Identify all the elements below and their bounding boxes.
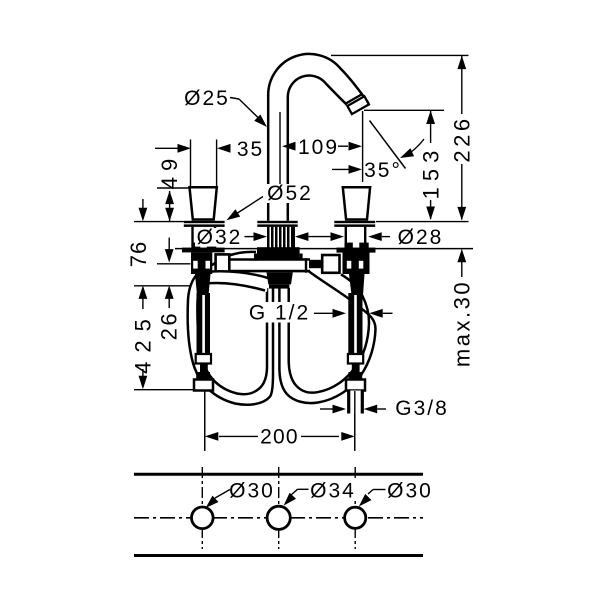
label plan diameter 30 right (386, 481, 434, 500)
hose horizontal crossover (216, 261, 310, 270)
dimension 35 degrees (332, 168, 349, 170)
svg-text:35°: 35° (364, 159, 402, 182)
svg-text:Ø30: Ø30 (229, 480, 275, 503)
label plan diameter 34 (309, 481, 357, 500)
svg-text:200: 200 (260, 426, 299, 449)
label G3/8 (320, 408, 333, 410)
svg-text:35: 35 (237, 138, 264, 161)
plan left hole circle (192, 507, 214, 529)
wire plate-top extension right (376, 221, 469, 223)
right valve pillar (345, 227, 347, 248)
wire ext line y389 (134, 389, 194, 391)
svg-text:153: 153 (419, 145, 444, 200)
plan centre line (134, 517, 423, 519)
label diameter 32 (195, 228, 244, 247)
wire 200 extension left (204, 392, 206, 451)
plan left hole centre line (201, 467, 203, 549)
right escutcheon plate (334, 221, 375, 223)
right valve shank (348, 293, 362, 354)
hose left loop (188, 252, 273, 405)
spout riser (267, 95, 270, 184)
plan deck top edge (134, 473, 423, 476)
label diameter 52 (264, 185, 316, 204)
wire ext line y264 (157, 263, 191, 265)
label plan diameter 30 left (228, 481, 276, 500)
dimension 153 (426, 111, 435, 125)
svg-text:Ø30: Ø30 (387, 480, 433, 503)
svg-text:G 1/2: G 1/2 (249, 302, 310, 325)
label G 1/2 (245, 302, 314, 323)
plan middle hole centre line (278, 467, 280, 549)
wire outlet vertical extension (362, 111, 364, 182)
right valve flange bar (337, 248, 376, 253)
spout mounting block (257, 247, 300, 260)
svg-text:425: 425 (131, 310, 156, 374)
dimension 425 (139, 285, 148, 299)
dimension 76 (142, 199, 144, 209)
left escutcheon plate (184, 221, 225, 223)
svg-text:Ø28: Ø28 (398, 226, 444, 249)
spout ribbed base (267, 227, 270, 248)
svg-text:Ø25: Ø25 (184, 87, 230, 110)
wire plate-top extension left (134, 221, 184, 223)
label diameter 28 (368, 232, 382, 241)
dimension 49 (165, 191, 174, 205)
svg-text:Ø34: Ø34 (310, 480, 356, 503)
svg-text:Ø32: Ø32 (197, 226, 243, 249)
dimension 226 (457, 56, 466, 70)
plan right hole circle (345, 507, 366, 528)
spout gooseneck (268, 54, 368, 103)
wire 200 extension right (354, 391, 356, 451)
dimension max.30 (457, 249, 466, 262)
spout flange (257, 221, 297, 223)
right valve body (343, 252, 370, 274)
spout aerator cap (347, 96, 369, 114)
wire ext line y286 (134, 285, 190, 287)
wire riser axis extension (279, 112, 281, 184)
svg-text:Ø52: Ø52 (267, 182, 313, 205)
left handle (190, 187, 217, 219)
plan right hole centre line (354, 467, 356, 549)
dimension 200 (204, 392, 206, 451)
hose left valve connection (206, 271, 269, 292)
wire handle-top extension (157, 187, 190, 189)
dimension 109 (282, 142, 296, 151)
fitting right nut (322, 255, 339, 273)
spout block taper (267, 272, 293, 284)
svg-text:76: 76 (126, 241, 151, 267)
left valve flange bar (182, 248, 225, 253)
fitting left end box (216, 254, 230, 271)
plan middle hole circle (267, 506, 290, 529)
left valve shank (197, 293, 211, 354)
dimension 26 (168, 238, 170, 251)
plan deck bottom edge (134, 554, 423, 557)
svg-text:26: 26 (156, 311, 181, 340)
dimension 35 (155, 147, 178, 149)
left valve body (191, 252, 212, 274)
svg-text:109: 109 (298, 136, 339, 159)
svg-text:226: 226 (450, 115, 475, 162)
wire outlet-bottom extension (364, 109, 444, 111)
svg-text:49: 49 (157, 153, 182, 189)
wire spout-top extension (331, 54, 469, 56)
right handle (343, 187, 370, 219)
left valve pillar (191, 227, 193, 248)
right shank nut (348, 372, 362, 380)
svg-text:max.30: max.30 (450, 280, 475, 367)
left shank nut (196, 372, 210, 380)
wire deck line (175, 248, 473, 250)
svg-text:G3/8: G3/8 (395, 397, 449, 420)
hose right loop (279, 272, 375, 404)
